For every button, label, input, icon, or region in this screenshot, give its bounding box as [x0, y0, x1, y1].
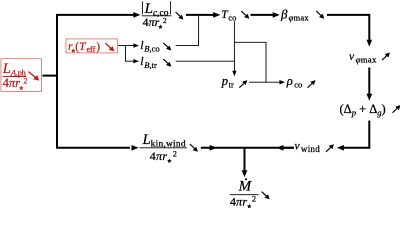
- svg-text:(T: (T: [75, 41, 87, 53]
- box border: [1, 59, 42, 92]
- wire: main spine vertical + top branch + bottom branch: [57, 15, 134, 148]
- searrow: [190, 144, 198, 152]
- nearrow: [382, 53, 390, 61]
- red searrow: [105, 43, 114, 51]
- arrow down into Mdot: [242, 170, 248, 177]
- arrowheads for thick wires: [132, 12, 373, 177]
- svg-text:B,tr: B,tr: [144, 60, 157, 70]
- wire: bottom mid line with junction: [201, 147, 294, 149]
- svg-text:φmax: φmax: [289, 13, 310, 23]
- svg-text:4πr: 4πr: [3, 76, 21, 90]
- svg-text:2: 2: [163, 16, 167, 25]
- svg-text:v: v: [349, 51, 355, 63]
- fraction bar: [230, 194, 259, 196]
- searrow: [316, 11, 324, 19]
- arrow down into Delta: [366, 94, 372, 101]
- searrow: [262, 192, 270, 200]
- wire: v_wind leftward short arrow: [283, 147, 294, 149]
- svg-text:wind: wind: [301, 144, 320, 154]
- arrow into rho_co: [279, 80, 285, 84]
- svg-text:β: β: [280, 7, 288, 22]
- searrow: [176, 12, 184, 20]
- svg-text:tr: tr: [229, 80, 234, 90]
- wire: p_tr to rho_co: [249, 81, 280, 83]
- arrow left into v_wind: [337, 145, 344, 151]
- wire: L_A,ph feed to spine: [43, 75, 59, 77]
- wire: r_*(Teff) box out + split: [118, 45, 134, 47]
- svg-text:(Δp + Δg): (Δp + Δg): [340, 102, 386, 118]
- arrow into T_co: [213, 12, 220, 18]
- fraction bar: [139, 147, 186, 149]
- svg-text:co: co: [294, 80, 302, 90]
- arrow right (from L_kin toward junction): [210, 145, 217, 151]
- arrow down into p_tr: [232, 71, 236, 77]
- svg-text:): ): [96, 41, 100, 53]
- numerator |L_c,co|: [142, 1, 144, 14]
- svg-text:B,co: B,co: [144, 43, 159, 53]
- fraction bar: [142, 15, 172, 17]
- arrow down into v_phi,max: [366, 40, 372, 47]
- nearrow: [326, 144, 334, 152]
- searrow: [163, 43, 171, 51]
- box border: [66, 39, 118, 53]
- searrow: [241, 11, 249, 19]
- nearrow: [308, 80, 316, 88]
- arrow into beta: [273, 12, 280, 18]
- wire: v_phi,max to Delta: [368, 68, 370, 95]
- arrow into l_B,tr: [133, 59, 139, 63]
- red searrow: [28, 72, 39, 81]
- svg-text:2: 2: [173, 149, 177, 158]
- nearrow: [393, 105, 400, 113]
- wire: l_B,co to connector up to top line: [176, 15, 199, 46]
- arrow into Lc,co fraction: [133, 12, 140, 18]
- svg-text:2: 2: [252, 195, 256, 204]
- svg-text:p: p: [221, 74, 228, 88]
- nearrow: [239, 80, 247, 88]
- svg-text:4πr: 4πr: [150, 149, 168, 163]
- arrow left (from v_wind toward junction): [276, 145, 283, 151]
- wire: l_B,tr to T_co drop line: [176, 60, 235, 62]
- svg-text:Lkin,wind: Lkin,wind: [142, 132, 186, 149]
- svg-text:ρ: ρ: [286, 74, 293, 88]
- wire: Lc,co fraction to T_co: [186, 14, 214, 16]
- wire: junction down to Mdot: [244, 148, 246, 171]
- wire: T_co drop down to p_tr: [233, 21, 235, 71]
- wire: branch right from T_co drop, down to rho feed: [234, 42, 266, 82]
- svg-text:v: v: [295, 140, 301, 152]
- arrowheads for thin wires: [133, 43, 285, 84]
- searrow: [163, 59, 171, 67]
- arrow into l_B,co: [133, 43, 139, 47]
- svg-text:eff: eff: [87, 45, 96, 54]
- wire: T_co to beta: [251, 14, 274, 16]
- arrow into L_kin,wind fraction: [132, 145, 139, 151]
- wire: beta to right column down to v_phi,max: [327, 15, 369, 41]
- svg-text:4πr: 4πr: [230, 194, 248, 208]
- fraction bar: [3, 76, 27, 78]
- wire: Delta down, corner, left to v_wind: [344, 121, 370, 148]
- svg-text:φmax: φmax: [356, 55, 377, 65]
- svg-text:co: co: [228, 13, 236, 23]
- svg-text:M: M: [238, 179, 253, 195]
- svg-text:4πr: 4πr: [143, 15, 160, 29]
- svg-text:2: 2: [23, 77, 27, 86]
